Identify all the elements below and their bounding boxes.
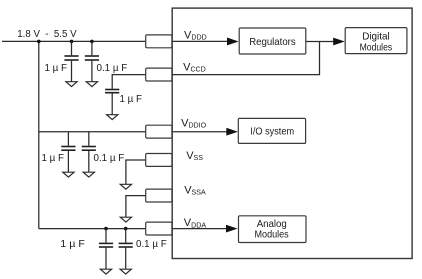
svg-text:Regulators: Regulators (249, 37, 296, 48)
node junction dot at C2 (90, 40, 94, 44)
pin VSS (146, 154, 172, 167)
ground symbol under C4 (63, 172, 74, 177)
svg-text:0.1 µ F: 0.1 µ F (94, 153, 125, 164)
wire: VSS pin to ground (126, 160, 145, 184)
wire: VDDIO pin to I/O system (172, 131, 227, 133)
wire: top supply rail to VDDD pin (2, 40, 145, 42)
chip outline U1 (MCU boundary) (172, 8, 412, 258)
ground symbol under C1 (66, 82, 77, 87)
wire: VDDD pin to Regulators (172, 40, 227, 42)
wire: VDDIO branch from vertical rail (39, 131, 145, 133)
pin VCCD (146, 68, 172, 81)
wire: left vertical supply rail (38, 41, 40, 228)
block Analog Modules (239, 216, 307, 243)
svg-text:Analog: Analog (257, 219, 287, 230)
capacitor C4 1 uF (VDDIO) (61, 132, 75, 173)
svg-text:1 µ F: 1 µ F (42, 153, 65, 164)
capacitor C2 0.1 uF (top rail) (85, 41, 99, 81)
capacitor C5 0.1 uF (VDDIO) (82, 132, 96, 173)
ground symbol for VSS (120, 184, 131, 189)
wire: Regulators output to Digital Modules (306, 41, 334, 43)
arrowhead into I/O system (226, 128, 238, 136)
pin VDDIO (146, 125, 172, 138)
svg-text:1 µ F: 1 µ F (60, 239, 85, 250)
block I/O system (238, 118, 305, 143)
svg-text:Modules: Modules (255, 230, 289, 241)
svg-text:I/O system: I/O system (250, 126, 294, 137)
arrowhead into Regulators (227, 38, 239, 46)
node junction dot on top rail at vertical rail (37, 40, 41, 44)
node junction dot at C1 (70, 40, 74, 44)
ground symbol under C6 (100, 269, 111, 274)
arrowhead into Analog Modules (226, 225, 238, 233)
wire: VCCD riser joining regulator output (172, 42, 319, 75)
block Digital Modules (345, 28, 407, 54)
wire: VDDA pin to Analog Modules (172, 228, 227, 230)
capacitor C6 1 uF (VDDA) (99, 229, 113, 270)
wire: VDDA bottom rail (39, 228, 145, 230)
capacitor C7 0.1 uF (VDDA) (119, 229, 133, 270)
block Regulators (239, 28, 306, 54)
svg-text:0.1 µ F: 0.1 µ F (136, 239, 167, 250)
svg-text:1.8 V - 5.5 V: 1.8 V - 5.5 V (17, 29, 77, 40)
svg-text:1 µ F: 1 µ F (120, 94, 143, 105)
node junction dot at C7 (124, 227, 128, 231)
svg-text:Modules: Modules (360, 42, 393, 53)
ground symbol under C5 (83, 172, 94, 177)
pin VDDD (146, 35, 172, 48)
pin VSSA (146, 189, 172, 202)
ground symbol for VSSA (120, 217, 131, 222)
node junction dot at C6 (104, 227, 108, 231)
wire: VSSA pin to ground (126, 196, 145, 218)
wire: VCCD external wire to bypass cap (112, 75, 145, 89)
capacitor C3 1 uF (VCCD bypass) (105, 90, 119, 115)
ground symbol under C2 (86, 82, 97, 87)
ground symbol under C7 (120, 269, 131, 274)
svg-text:Digital: Digital (362, 31, 390, 42)
svg-text:1 µ F: 1 µ F (45, 63, 68, 74)
svg-text:0.1 µ F: 0.1 µ F (97, 63, 128, 74)
ground symbol under C3 (107, 115, 118, 120)
capacitor C1 1 uF (top rail) (64, 41, 78, 81)
arrowhead into Digital Modules (333, 38, 345, 46)
pin VDDA (146, 222, 172, 235)
